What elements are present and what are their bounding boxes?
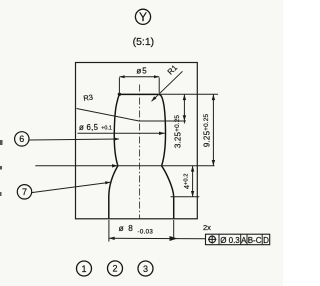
balloon 6 (15, 132, 29, 146)
svg-text:Ø 0.3: Ø 0.3 (220, 236, 240, 245)
scan artifact marks on left edge (0, 140, 3, 196)
svg-text:B-C: B-C (248, 236, 262, 245)
feature line at 3.25 level (139, 120, 187, 122)
svg-text:+0.1: +0.1 (101, 125, 112, 131)
svg-text:ø 8: ø 8 (119, 224, 134, 233)
svg-text:1: 1 (81, 264, 86, 274)
balloon 7 (17, 185, 31, 199)
dimension 9.25 +0.25 (203, 94, 216, 166)
svg-text:-0.03: -0.03 (138, 229, 154, 236)
dimension 4 +0.2 (182, 166, 195, 197)
svg-text:2: 2 (112, 264, 117, 274)
tangent dot at top-left corner (118, 93, 121, 96)
svg-text:R3: R3 (83, 93, 94, 103)
top extension line (159, 93, 218, 95)
cylinder-top feature line (171, 196, 200, 198)
radius callout R1 (152, 63, 183, 101)
waist feature line (35, 165, 214, 167)
svg-text:D: D (263, 236, 269, 245)
svg-text:3: 3 (143, 264, 148, 274)
dimension 3.25 +0.25 (174, 94, 186, 148)
detail view frame (76, 63, 198, 219)
waist arrow (112, 164, 118, 167)
svg-text:Y: Y (139, 10, 147, 24)
leader from balloon 7 (32, 181, 111, 192)
svg-text:6: 6 (19, 134, 24, 144)
svg-text:A: A (241, 236, 247, 245)
radius callout R3 (77, 93, 139, 121)
balloon 2 (108, 261, 123, 276)
position symbol (209, 236, 216, 243)
balloon 1 (77, 261, 92, 276)
part outline (109, 94, 174, 218)
centerline (139, 85, 141, 219)
svg-text:ø5: ø5 (136, 66, 147, 75)
dimension ø8 -0.03 (109, 220, 206, 242)
svg-text:7: 7 (22, 187, 27, 197)
dimension ø5 (119, 66, 159, 93)
detail label circle Y (135, 9, 150, 24)
balloon 3 (138, 261, 153, 276)
svg-text:2x: 2x (203, 223, 211, 232)
dimension ø6,5 +0.1 (78, 123, 165, 135)
svg-text:(5:1): (5:1) (133, 36, 155, 48)
svg-text:ø 6,5: ø 6,5 (79, 123, 99, 132)
feature control frame (206, 234, 270, 245)
leader from balloon 6 (29, 137, 119, 140)
